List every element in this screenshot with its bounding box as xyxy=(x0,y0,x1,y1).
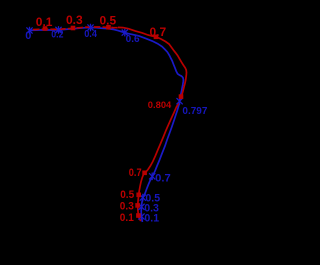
star 0.6 xyxy=(122,29,128,37)
star 0.2 xyxy=(55,26,61,34)
svg-text:0.2: 0.2 xyxy=(51,29,64,40)
star 0.797 xyxy=(177,97,183,105)
svg-text:0.6: 0.6 xyxy=(126,34,140,45)
red square markers xyxy=(43,25,184,218)
svg-text:0.4: 0.4 xyxy=(84,29,97,40)
blue star markers xyxy=(26,24,182,221)
red curve left segment (dashed appearance over blue) xyxy=(33,27,118,30)
red curve xyxy=(118,27,187,221)
svg-text:0.7: 0.7 xyxy=(129,167,142,179)
svg-text:0.7: 0.7 xyxy=(155,173,171,185)
star 0.7 bottom xyxy=(149,173,155,181)
svg-text:0.7: 0.7 xyxy=(150,25,167,39)
star 0 xyxy=(26,27,32,35)
svg-text:0.5: 0.5 xyxy=(120,189,134,201)
svg-text:0.5: 0.5 xyxy=(100,13,117,27)
svg-text:0.1: 0.1 xyxy=(36,15,53,29)
star 0.3 bottom xyxy=(138,203,144,211)
svg-text:0: 0 xyxy=(25,30,31,42)
blue curve xyxy=(29,28,183,223)
star 0.1 bottom xyxy=(138,213,144,221)
svg-text:0.804: 0.804 xyxy=(148,99,172,110)
svg-text:0.1: 0.1 xyxy=(144,212,159,224)
svg-text:0.3: 0.3 xyxy=(66,13,83,27)
star 0.4 xyxy=(87,24,93,32)
svg-text:0.797: 0.797 xyxy=(182,106,208,117)
svg-text:0.1: 0.1 xyxy=(120,212,134,224)
star 0.5 bottom xyxy=(140,194,146,202)
